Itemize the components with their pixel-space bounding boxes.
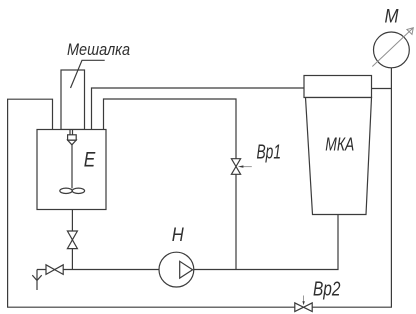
wire: outer loop (tank top-left up, left side, bottom, right side to gauge) — [8, 68, 392, 307]
svg-text:Вр1: Вр1 — [257, 142, 282, 164]
mixer label Мешалка leader line — [71, 60, 105, 88]
valve Вр2 actuator arrow — [303, 296, 305, 302]
wire: tank top to Вр1 riser down to pump discharge — [104, 99, 237, 270]
wire: suction/discharge main line to MKA bottom — [37, 215, 338, 270]
drain Y symbol — [32, 270, 41, 291]
valve (tank drain, vertical) — [67, 231, 77, 249]
svg-text:М: М — [385, 6, 400, 28]
svg-text:Вр2: Вр2 — [313, 279, 341, 301]
valve Вр1 actuator arrow — [243, 166, 252, 168]
svg-text:E: E — [84, 148, 96, 172]
wire: gauge line to MKA header connector — [372, 88, 392, 90]
svg-text:Н: Н — [172, 224, 185, 246]
wire: tank bottom outlet down to suction line — [71, 210, 73, 270]
svg-text:МКА: МКА — [325, 134, 354, 154]
tank E — [37, 130, 106, 210]
valve (suction, horizontal) — [46, 265, 63, 275]
wire: tank top to MKA header (upper pipe) — [92, 88, 305, 130]
vessel MKA header — [304, 76, 372, 98]
gauge M arrow — [372, 28, 413, 67]
gauge M circle — [374, 32, 410, 68]
mixer shaft housing — [61, 70, 85, 130]
valve Вр1 — [231, 159, 240, 175]
pump H — [159, 252, 194, 287]
agitator shaft — [71, 145, 73, 189]
agitator shaft upper (double line) — [70, 130, 73, 135]
svg-text:Мешалка: Мешалка — [67, 40, 130, 59]
agitator coupling — [68, 135, 77, 140]
vessel MKA body — [306, 98, 372, 215]
propeller — [60, 188, 72, 193]
valve Вр2 — [295, 303, 312, 312]
